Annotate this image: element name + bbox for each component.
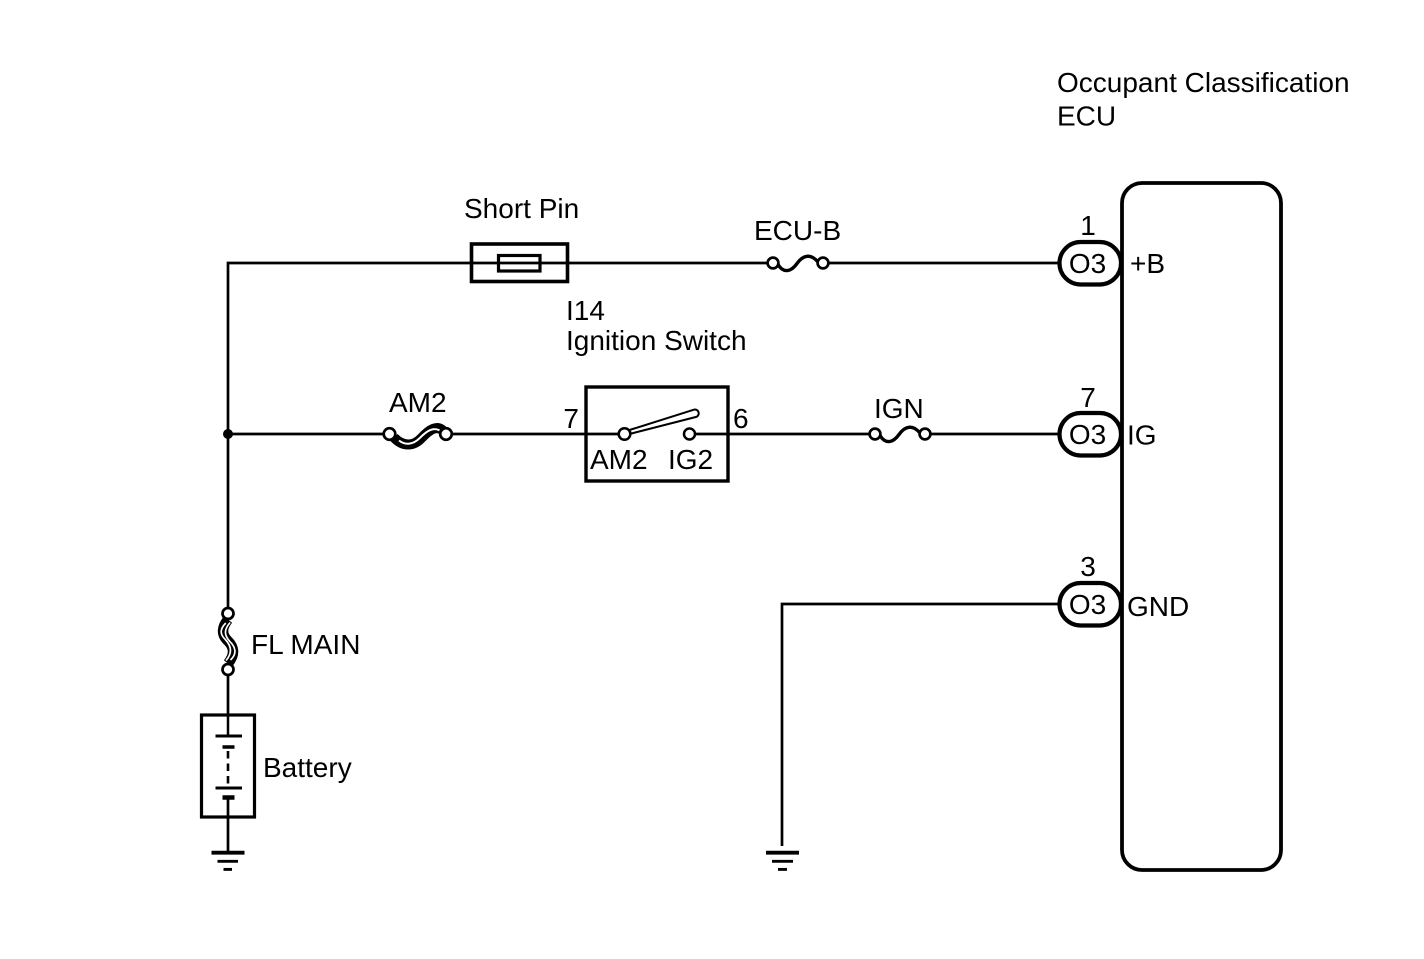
switch contact IG2 (684, 429, 695, 440)
fusible link FL MAIN (221, 608, 235, 675)
svg-text:ECU: ECU (1057, 101, 1116, 132)
wire: GND run from ECU pin 3 to ground (782, 604, 1059, 846)
ground: battery (212, 853, 245, 870)
svg-text:AM2: AM2 (590, 444, 648, 475)
wire: middle IG row (228, 433, 1059, 436)
svg-text:FL MAIN: FL MAIN (251, 629, 360, 660)
ground: ECU GND (766, 853, 799, 870)
svg-text:IG: IG (1127, 420, 1157, 451)
svg-text:ECU-B: ECU-B (754, 215, 841, 246)
connector O3 pin 7 oval (1060, 413, 1122, 456)
svg-text:7: 7 (1080, 382, 1096, 413)
fuse IGN (870, 427, 931, 441)
switch arm (630, 410, 699, 434)
svg-text:IGN: IGN (874, 393, 924, 424)
svg-text:1: 1 (1080, 210, 1096, 241)
svg-text:O3: O3 (1069, 248, 1106, 279)
svg-text:AM2: AM2 (389, 387, 447, 418)
svg-text:Short Pin: Short Pin (464, 193, 579, 224)
switch I14 box (586, 387, 728, 481)
svg-text:Occupant Classification: Occupant Classification (1057, 67, 1350, 98)
svg-text:GND: GND (1127, 591, 1189, 622)
fuse ECU-B (768, 256, 829, 270)
fusible link AM2 (384, 428, 452, 444)
switch contact AM2 (619, 428, 631, 440)
short pin connector symbol (472, 244, 568, 282)
svg-text:O3: O3 (1069, 589, 1106, 620)
battery (202, 715, 255, 817)
ECU U1: Occupant Classification ECU body (1122, 183, 1281, 870)
svg-text:I14: I14 (566, 295, 605, 326)
svg-text:6: 6 (733, 403, 749, 434)
connector O3 pin 3 oval (1060, 583, 1122, 626)
svg-text:Ignition Switch: Ignition Switch (566, 325, 747, 356)
wire: top +B feed from junction to ECU pin 1 (228, 263, 1059, 613)
node: junction of battery feed and IG row (223, 429, 233, 439)
wire: battery to ground (227, 799, 230, 852)
svg-text:Battery: Battery (263, 752, 352, 783)
wire: FL MAIN to battery (227, 669, 230, 716)
svg-text:7: 7 (563, 403, 579, 434)
svg-text:+B: +B (1130, 248, 1165, 279)
svg-text:3: 3 (1080, 551, 1096, 582)
connector O3 pin 1 oval (1060, 242, 1122, 285)
svg-text:IG2: IG2 (668, 444, 713, 475)
svg-text:O3: O3 (1069, 419, 1106, 450)
